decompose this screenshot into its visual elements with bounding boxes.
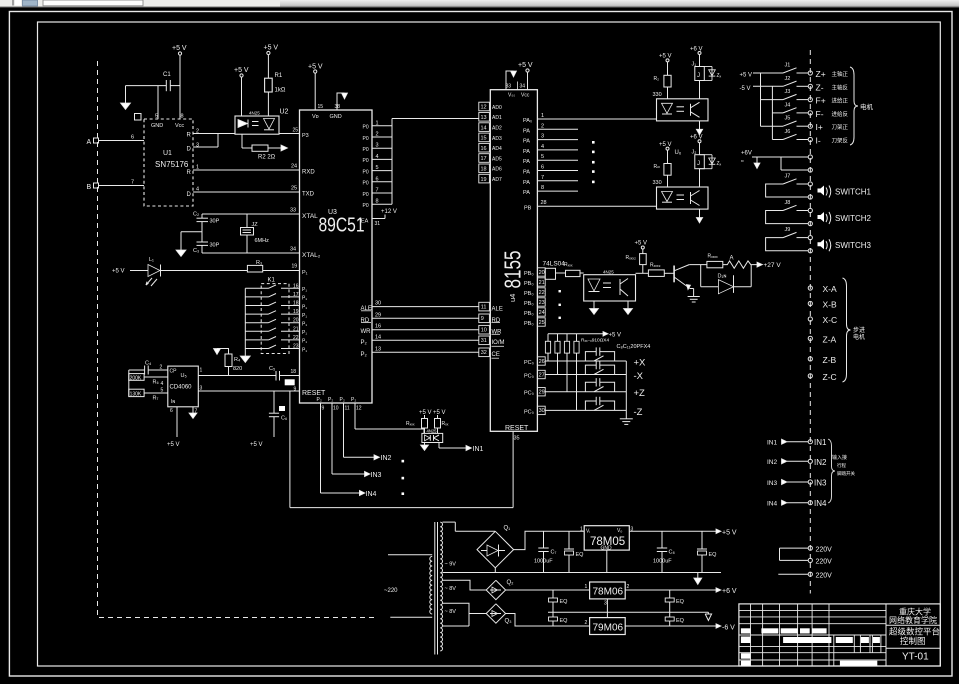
svg-text:A: A xyxy=(87,139,92,146)
U4 RESET pin 35 xyxy=(505,425,529,442)
svg-text:3: 3 xyxy=(541,134,544,140)
svg-text:SN75176: SN75176 xyxy=(155,160,189,169)
svg-text:79M06: 79M06 xyxy=(593,623,624,634)
wire pin11 to IN2 xyxy=(344,410,392,462)
svg-text:P₂: P₂ xyxy=(328,397,333,403)
U4 power pins xyxy=(506,62,533,99)
U5 +5V pin6 xyxy=(167,407,180,448)
svg-text:P0: P0 xyxy=(363,147,369,153)
dashed terminal rail xyxy=(809,50,811,594)
wire pin12 to INT opto xyxy=(355,410,424,433)
svg-text:J1: J1 xyxy=(785,63,791,69)
svg-text:27: 27 xyxy=(539,372,545,378)
svg-text:IN1: IN1 xyxy=(767,440,778,447)
bus ALE RD WR IO/M CE xyxy=(361,301,505,359)
svg-text:12: 12 xyxy=(356,406,362,412)
svg-text:23: 23 xyxy=(293,344,299,350)
svg-text:L₁: L₁ xyxy=(149,257,154,263)
svg-text:Q₃: Q₃ xyxy=(505,619,513,625)
svg-text:Z-A: Z-A xyxy=(823,335,837,345)
svg-text:220V: 220V xyxy=(816,546,833,553)
svg-text:18: 18 xyxy=(291,369,297,375)
svg-text:IN4: IN4 xyxy=(814,499,827,508)
svg-text:2: 2 xyxy=(627,584,630,590)
svg-text:Vcc: Vcc xyxy=(175,123,184,129)
title text drawing name xyxy=(889,627,940,647)
svg-text:IN2: IN2 xyxy=(767,459,778,466)
svg-text:+5 V: +5 V xyxy=(172,45,187,52)
svg-text:~ 8V: ~ 8V xyxy=(445,586,457,592)
svg-text:EQ: EQ xyxy=(676,599,685,605)
RS485 transceiver U1 SN75176 xyxy=(144,114,199,207)
svg-text:PB₀: PB₀ xyxy=(524,321,534,327)
svg-text:26: 26 xyxy=(539,359,545,365)
svg-text:1000uF: 1000uF xyxy=(534,559,553,565)
wire U1 D4 to TXD xyxy=(193,191,300,193)
svg-text:28: 28 xyxy=(541,200,547,206)
svg-text:3: 3 xyxy=(196,143,199,149)
optocoupler U7 4N25 xyxy=(584,270,636,302)
svg-text:P₂: P₂ xyxy=(317,397,322,403)
svg-text:+5 V: +5 V xyxy=(518,62,533,69)
svg-text:P0: P0 xyxy=(363,125,369,131)
svg-text:25: 25 xyxy=(291,186,297,192)
bridge rectifier Q1 xyxy=(443,522,514,572)
svg-text:P₂: P₂ xyxy=(361,340,368,346)
svg-text:RESET: RESET xyxy=(505,425,529,432)
svg-text:17: 17 xyxy=(481,156,487,162)
keypad common bus and ground xyxy=(240,288,250,362)
svg-text:P0: P0 xyxy=(363,203,369,209)
svg-text:AD5: AD5 xyxy=(492,156,502,162)
svg-text:P0: P0 xyxy=(363,169,369,175)
transistor Q5 driver xyxy=(674,265,690,290)
svg-text:Z+: Z+ xyxy=(816,69,826,79)
svg-text:-5 V: -5 V xyxy=(740,86,751,92)
inverter 74LS04 xyxy=(543,261,566,280)
svg-text:IN3: IN3 xyxy=(371,472,382,479)
svg-text:YT-01: YT-01 xyxy=(902,652,929,663)
svg-text:C₈C₁₁20PFX4: C₈C₁₁20PFX4 xyxy=(617,344,651,350)
svg-text:31: 31 xyxy=(481,338,487,344)
svg-text:18: 18 xyxy=(293,301,299,307)
svg-text:IN1: IN1 xyxy=(473,446,484,453)
power +5V to U2 LED xyxy=(234,67,249,116)
svg-text:30P: 30P xyxy=(210,219,220,225)
svg-text:PB₀: PB₀ xyxy=(524,301,534,307)
svg-text:820: 820 xyxy=(233,366,242,372)
svg-text:9: 9 xyxy=(294,387,297,393)
ground for crystal caps xyxy=(176,232,202,257)
svg-text:EQ: EQ xyxy=(560,599,569,605)
svg-text:AD4: AD4 xyxy=(492,146,502,152)
svg-text:2: 2 xyxy=(160,365,163,371)
svg-text:进给正: 进给正 xyxy=(832,97,849,105)
svg-text:PC₀: PC₀ xyxy=(524,360,534,366)
wire U1 R/D to opto U2 xyxy=(193,134,235,148)
svg-text:Zₓ: Zₓ xyxy=(717,73,722,79)
transformer T1 xyxy=(384,522,443,655)
svg-text:+5 V: +5 V xyxy=(234,67,249,74)
svg-text:11: 11 xyxy=(345,406,350,412)
svg-text:16: 16 xyxy=(293,283,299,289)
svg-text:Vₒ: Vₒ xyxy=(617,528,622,534)
svg-text:电机: 电机 xyxy=(860,102,874,111)
svg-text:23: 23 xyxy=(539,300,545,306)
capacitor C1 xyxy=(126,72,181,91)
svg-text:15: 15 xyxy=(481,136,487,142)
svg-text:74LS04: 74LS04 xyxy=(543,261,566,268)
svg-text:C₂: C₂ xyxy=(193,212,199,218)
svg-text:D: D xyxy=(187,192,192,198)
svg-text:2: 2 xyxy=(376,132,379,138)
LED L1 indicator xyxy=(112,257,163,286)
svg-text:U₅: U₅ xyxy=(181,373,187,379)
title block grid xyxy=(739,604,886,666)
bridge rectifier Q2 xyxy=(443,580,515,600)
svg-text:+5 V: +5 V xyxy=(609,333,622,339)
svg-text:31: 31 xyxy=(375,221,381,227)
switch terminals SWITCH1-3 xyxy=(766,174,872,253)
svg-text:P₁: P₁ xyxy=(302,270,308,276)
svg-text:+Z: +Z xyxy=(634,388,646,399)
stepper terminals X-A..Z-C xyxy=(808,284,837,382)
stepper brace xyxy=(843,278,866,382)
svg-text:WR: WR xyxy=(361,329,372,335)
svg-text:Z-B: Z-B xyxy=(823,355,837,365)
svg-text:J7: J7 xyxy=(785,174,791,180)
svg-text:进给反: 进给反 xyxy=(832,110,849,118)
svg-text:+5 V: +5 V xyxy=(433,410,446,416)
svg-text:+5 V: +5 V xyxy=(722,530,737,537)
svg-text:IN3: IN3 xyxy=(767,480,778,487)
svg-text:13: 13 xyxy=(375,346,381,352)
svg-text:EA: EA xyxy=(361,219,369,225)
svg-text:P3: P3 xyxy=(302,133,309,139)
svg-text:F+: F+ xyxy=(816,96,826,106)
resistor R6 200K xyxy=(129,374,168,387)
svg-text:Iɴ: Iɴ xyxy=(171,399,175,405)
keypad switch rows xyxy=(245,283,307,353)
svg-text:30P: 30P xyxy=(210,243,220,249)
svg-text:PC₀: PC₀ xyxy=(524,374,534,380)
svg-text:PA: PA xyxy=(523,149,530,155)
svg-text:C₇: C₇ xyxy=(551,550,557,556)
XTAL1 pin xyxy=(290,208,318,221)
svg-text:C₅: C₅ xyxy=(269,366,275,372)
svg-text:+5 V: +5 V xyxy=(167,442,180,448)
svg-text:18: 18 xyxy=(481,167,487,173)
INT opto ground xyxy=(421,443,429,451)
svg-text:Rₓₓ₋ₓ910ΩX4: Rₓₓ₋ₓ910ΩX4 xyxy=(581,338,610,344)
svg-text:1: 1 xyxy=(200,368,203,374)
svg-text:22: 22 xyxy=(539,290,545,296)
svg-text:13: 13 xyxy=(481,115,487,121)
svg-text:P₁: P₁ xyxy=(302,304,307,310)
svg-text:PA: PA xyxy=(523,128,530,134)
svg-text:SWITCH2: SWITCH2 xyxy=(835,214,872,223)
svg-text:4: 4 xyxy=(161,381,164,387)
wire XTAL2 xyxy=(202,252,300,254)
EA pin to +12V xyxy=(361,209,397,227)
svg-text:P₁: P₁ xyxy=(302,313,307,319)
INT optocoupler small xyxy=(422,429,443,443)
svg-text:刀架反: 刀架反 xyxy=(832,137,849,145)
capacitor C8 1000uF xyxy=(653,531,675,572)
svg-text:1000uF: 1000uF xyxy=(653,559,672,565)
svg-text:6: 6 xyxy=(541,165,544,171)
svg-text:刀架正: 刀架正 xyxy=(832,124,849,131)
capacitor C2 30P xyxy=(193,212,220,243)
input brace xyxy=(828,439,855,503)
svg-text:+5 V: +5 V xyxy=(659,54,672,60)
svg-text:7: 7 xyxy=(376,188,379,194)
wire U5 pin3 to RESET xyxy=(198,390,299,392)
svg-text:Rₓₓ: Rₓₓ xyxy=(442,421,449,427)
svg-text:Vᵢ: Vᵢ xyxy=(586,529,590,535)
U4 PB port pins xyxy=(524,268,545,327)
svg-text:AD3: AD3 xyxy=(492,136,502,142)
svg-text:IN2: IN2 xyxy=(381,455,392,462)
svg-text:+5 V: +5 V xyxy=(419,410,432,416)
svg-text:SWITCH1: SWITCH1 xyxy=(835,188,872,197)
svg-text:~ 8V: ~ 8V xyxy=(445,609,457,615)
svg-text:R₃: R₃ xyxy=(256,260,262,266)
optocoupler-relay channel 1 (J1) xyxy=(653,46,722,135)
capacitor C3 30P xyxy=(193,242,220,254)
svg-text:78M06: 78M06 xyxy=(593,587,624,598)
svg-text:4N25: 4N25 xyxy=(427,429,438,434)
U4 PB6 pin28 wire xyxy=(524,200,657,212)
resistor R4 820 xyxy=(214,349,243,376)
svg-text:330: 330 xyxy=(653,92,662,98)
svg-text:R: R xyxy=(187,170,192,176)
svg-text:+5 V: +5 V xyxy=(250,442,263,448)
svg-text:Rₓₓₓ: Rₓₓₓ xyxy=(406,421,415,427)
svg-text:R₆: R₆ xyxy=(153,380,159,386)
wire pin10 to IN3 xyxy=(332,410,382,479)
svg-text:AD2: AD2 xyxy=(492,126,502,132)
svg-text:19: 19 xyxy=(293,309,299,315)
driver ground xyxy=(688,289,700,303)
wire opto3 to base resistor xyxy=(636,272,649,274)
svg-text:35: 35 xyxy=(514,436,520,442)
svg-text:6: 6 xyxy=(376,176,379,182)
svg-text:3: 3 xyxy=(604,601,607,607)
capacitor EQ1 xyxy=(564,531,584,572)
left bus of reset RC xyxy=(128,370,130,397)
svg-text:~220: ~220 xyxy=(384,588,398,594)
svg-text:I-: I- xyxy=(816,136,821,146)
motor group brace xyxy=(850,67,874,145)
svg-text:U1: U1 xyxy=(163,150,172,157)
svg-text:EQ: EQ xyxy=(709,552,718,558)
svg-text:AD7: AD7 xyxy=(492,177,502,183)
svg-text:38: 38 xyxy=(335,104,341,110)
svg-text:11: 11 xyxy=(481,304,487,310)
svg-text:AD1: AD1 xyxy=(492,115,502,121)
timer IC U5 CD4060 xyxy=(168,366,203,414)
svg-text:29: 29 xyxy=(375,312,381,318)
wire to IN1 xyxy=(439,443,484,454)
svg-text:C₆: C₆ xyxy=(281,416,287,422)
svg-text:+6 V: +6 V xyxy=(722,588,737,595)
svg-text:Vₛₛ: Vₛₛ xyxy=(508,93,515,99)
svg-text:AD0: AD0 xyxy=(492,105,502,111)
svg-text:SWITCH3: SWITCH3 xyxy=(835,241,872,250)
pullup bank R14-R17 xyxy=(545,332,650,411)
crystal JZ 6MHz xyxy=(241,214,270,253)
svg-text:8: 8 xyxy=(376,199,379,205)
U3 designator text xyxy=(319,209,365,237)
XTAL2 pin xyxy=(290,247,321,260)
+6V feed terminals xyxy=(741,151,812,173)
svg-text:7: 7 xyxy=(541,175,544,181)
svg-text:34: 34 xyxy=(520,84,526,90)
svg-text:-Z: -Z xyxy=(634,407,643,418)
svg-text:14: 14 xyxy=(481,125,487,131)
svg-text:6MHz: 6MHz xyxy=(255,238,270,244)
svg-text:20: 20 xyxy=(293,318,299,324)
svg-text:PB₀: PB₀ xyxy=(524,311,534,317)
svg-text:PA: PA xyxy=(523,190,530,196)
U5 ground pin7 xyxy=(189,407,197,419)
svg-text:XTAL: XTAL xyxy=(302,213,318,220)
svg-text:脚踏开关: 脚踏开关 xyxy=(837,470,855,477)
svg-text:步进: 步进 xyxy=(853,326,865,334)
+5V rail with 78M05 xyxy=(514,529,737,550)
PB continuation dots xyxy=(559,290,561,319)
output terminals J1-J6 xyxy=(740,63,849,146)
svg-text:4: 4 xyxy=(376,154,379,160)
input terminals IN1-IN4 xyxy=(767,438,827,508)
svg-text:8: 8 xyxy=(541,185,544,191)
svg-text:IN1: IN1 xyxy=(814,438,827,447)
svg-text:CD4060: CD4060 xyxy=(170,385,193,391)
svg-text:Vᴄᴄ: Vᴄᴄ xyxy=(521,93,530,99)
svg-text:I+: I+ xyxy=(816,122,823,132)
title block frame xyxy=(739,604,940,666)
svg-text:IN4: IN4 xyxy=(767,501,778,508)
svg-text:J5: J5 xyxy=(785,116,791,122)
capacitor EQ4 xyxy=(665,590,684,612)
terminal B xyxy=(87,180,145,192)
svg-text:电机: 电机 xyxy=(853,333,865,341)
flyback diode D1 xyxy=(701,265,752,294)
svg-text:3: 3 xyxy=(631,527,634,533)
svg-text:AD6: AD6 xyxy=(492,167,502,173)
svg-text:K1: K1 xyxy=(268,278,276,284)
svg-text:8: 8 xyxy=(181,114,184,120)
svg-text:输入接: 输入接 xyxy=(832,454,847,461)
svg-text:D₁ɴ: D₁ɴ xyxy=(718,274,727,280)
optocoupler-relay channel 2 (J2) xyxy=(653,135,722,224)
svg-text:220V: 220V xyxy=(816,572,833,579)
svg-text:RXD: RXD xyxy=(302,170,315,176)
resistor R14 to motor xyxy=(707,254,723,268)
svg-text:PB₀: PB₀ xyxy=(524,281,534,287)
optocoupler U2 xyxy=(235,109,289,135)
svg-text:P0: P0 xyxy=(363,136,369,142)
svg-text:1: 1 xyxy=(580,527,583,533)
wire pin9 to IN4 xyxy=(321,410,377,498)
svg-text:C₃: C₃ xyxy=(193,248,199,254)
title text university xyxy=(889,607,937,626)
svg-text:-6 V: -6 V xyxy=(722,625,735,632)
svg-text:30: 30 xyxy=(375,301,381,307)
svg-text:R1: R1 xyxy=(275,73,283,79)
svg-text:CP: CP xyxy=(170,369,178,375)
svg-text:8155: 8155 xyxy=(500,251,526,289)
svg-text:J2: J2 xyxy=(785,76,791,82)
svg-text:Rₘ: Rₘ xyxy=(654,164,661,170)
svg-text:4N25: 4N25 xyxy=(603,270,614,275)
svg-text:PB₀: PB₀ xyxy=(524,271,534,277)
mid ground rail xyxy=(548,612,712,620)
svg-text:超级数控平台: 超级数控平台 xyxy=(889,627,940,637)
+6V rail with 78M06 xyxy=(506,588,737,595)
svg-text:B: B xyxy=(87,184,92,191)
motor armature A xyxy=(723,256,782,270)
resistor R1 1k xyxy=(264,45,286,117)
U4 designator rotated xyxy=(500,251,526,303)
svg-text:U2: U2 xyxy=(280,109,289,116)
svg-text:4N25: 4N25 xyxy=(249,111,260,116)
svg-text:D: D xyxy=(187,147,192,153)
svg-text:网络教育学院: 网络教育学院 xyxy=(889,615,937,625)
U4 AD bus pin boxes xyxy=(479,102,502,183)
svg-text:10: 10 xyxy=(481,328,487,334)
PA continuation dots xyxy=(592,141,595,183)
svg-text:PC₀: PC₀ xyxy=(524,391,534,397)
svg-text:17: 17 xyxy=(293,292,299,298)
svg-text:PA: PA xyxy=(523,139,530,145)
svg-text:C₈: C₈ xyxy=(669,550,675,556)
svg-text:J4: J4 xyxy=(785,102,791,108)
wire U1 pin5 to C1 net xyxy=(157,86,159,119)
svg-text:25: 25 xyxy=(293,128,299,134)
wire U2 out to 89C51 INT xyxy=(279,128,300,134)
svg-text:2: 2 xyxy=(585,620,588,626)
svg-text:34: 34 xyxy=(290,247,296,253)
INT input resistors xyxy=(406,410,449,433)
svg-text:5: 5 xyxy=(155,114,158,120)
svg-text:PA: PA xyxy=(523,159,530,165)
U3 left pin INT label xyxy=(302,133,309,139)
svg-text:130K: 130K xyxy=(130,391,142,397)
wire XTAL1 xyxy=(202,213,300,215)
dashed region boundary xyxy=(98,61,376,618)
svg-text:20: 20 xyxy=(539,270,545,276)
svg-text:RESET: RESET xyxy=(302,390,326,397)
svg-text:J9: J9 xyxy=(785,227,791,233)
title text drawing number YT-01 xyxy=(902,652,929,663)
svg-text:19: 19 xyxy=(481,177,487,183)
svg-text:R2 2Ω: R2 2Ω xyxy=(258,155,276,161)
svg-text:EQ: EQ xyxy=(560,618,569,624)
svg-text:~ 9V: ~ 9V xyxy=(445,562,457,568)
wire RESET net down to 8155 xyxy=(290,391,513,508)
title block filled cells xyxy=(741,628,880,665)
mains terminals 220V xyxy=(778,546,832,579)
svg-text:J6: J6 xyxy=(785,129,791,135)
svg-text:Zₓ: Zₓ xyxy=(717,161,722,167)
svg-text:+5 V: +5 V xyxy=(659,142,672,148)
svg-text:24: 24 xyxy=(539,310,545,316)
svg-text:-X: -X xyxy=(634,371,644,382)
U3 bottom pin stubs xyxy=(317,397,362,412)
svg-text:U₆: U₆ xyxy=(675,150,682,156)
